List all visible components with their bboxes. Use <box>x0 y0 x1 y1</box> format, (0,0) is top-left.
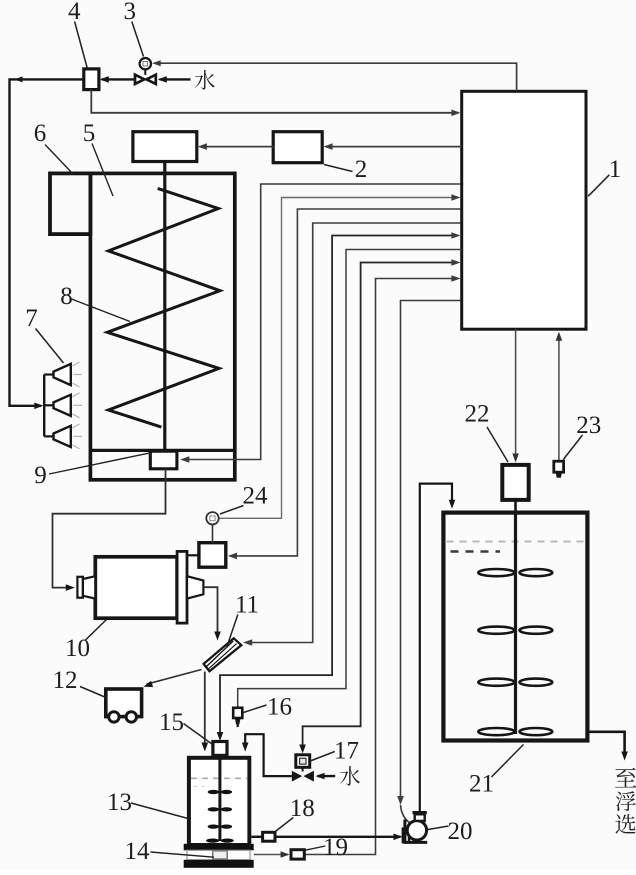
label 5 leader <box>92 144 113 197</box>
ball mill 10 end plate <box>177 551 187 623</box>
wire valve 17 to tank 13 <box>245 734 292 776</box>
wire controller to pump 20 <box>401 301 461 799</box>
ball mill 10 right trunnion <box>187 576 203 598</box>
label 22 leader <box>487 427 508 462</box>
valve 3 stem <box>144 69 146 75</box>
water text at valve 3 <box>195 70 215 89</box>
wire controller to chute 11 <box>245 223 461 643</box>
chute 11 <box>204 638 242 671</box>
svg-text:5: 5 <box>83 120 96 147</box>
water inlet arrow to valve 17 <box>318 775 336 777</box>
wire box 4 signal to controller 1 <box>91 90 458 113</box>
wire box 9 to ball mill feed <box>53 469 166 588</box>
wire chute to cart 12 <box>147 670 202 685</box>
svg-text:1: 1 <box>609 156 622 183</box>
svg-text:8: 8 <box>60 283 73 310</box>
box 22 (feeder head) <box>502 465 528 500</box>
wire sensor 23 to controller <box>558 339 560 461</box>
ball mill 10 left trunnion <box>77 577 83 598</box>
wire controller to feeder box of mill <box>230 209 461 556</box>
box 22 stem <box>514 500 517 513</box>
box 15 on tank 13 <box>213 742 227 756</box>
svg-text:19: 19 <box>323 834 348 861</box>
svg-text:17: 17 <box>334 738 359 765</box>
box 4 (flow meter) <box>84 69 99 90</box>
pipe pump 20 to tank 21 <box>420 484 452 813</box>
svg-text:3: 3 <box>123 0 136 25</box>
cart 12 body <box>106 689 142 717</box>
label 2 leader <box>324 165 353 172</box>
box 19 (sampler) <box>291 850 304 859</box>
wire sensor 24 to controller <box>219 198 459 519</box>
spray nozzles 7 with manifold <box>43 375 45 437</box>
label 17 leader <box>310 752 335 762</box>
tank 13 shell <box>189 758 249 845</box>
wire controller to box 22 <box>515 329 517 456</box>
svg-text:9: 9 <box>34 462 47 489</box>
label 4 leader <box>75 22 88 69</box>
svg-text:4: 4 <box>68 0 81 25</box>
tank 13 discharge band <box>187 850 250 860</box>
label 1 leader <box>588 175 609 196</box>
valve 3 actuator circle <box>140 58 151 69</box>
svg-text:15: 15 <box>159 709 184 736</box>
wire valve 3 to box 4 <box>102 78 135 80</box>
svg-text:7: 7 <box>25 305 38 332</box>
svg-text:24: 24 <box>243 483 269 510</box>
valve 17 actuator box <box>296 755 310 768</box>
box 6 on tank 5 <box>50 173 90 234</box>
label 3 leader <box>132 22 144 57</box>
water inlet arrow to valve 3 <box>160 78 191 80</box>
tank 13 interior white <box>191 760 247 843</box>
label 18 leader <box>275 818 293 832</box>
tank 13 stirrer paddles <box>208 790 220 794</box>
svg-text:23: 23 <box>576 412 601 439</box>
wire chute to tank 13 <box>204 672 206 745</box>
svg-text:14: 14 <box>125 838 151 865</box>
label 10 leader <box>86 620 107 641</box>
pump 20 casing <box>405 820 427 843</box>
tank 5 bottom separator <box>92 449 233 452</box>
tank 5 stirrer shaft <box>163 162 166 451</box>
pump 20 discharge neck <box>415 814 425 821</box>
wire mill discharge to chute <box>203 587 217 633</box>
wire controller to box 15 <box>220 236 459 734</box>
sensor 24 circle <box>206 512 218 524</box>
svg-text:12: 12 <box>53 667 78 694</box>
screw 8 (zigzag spiral) <box>107 188 220 427</box>
wire box 2 to motor box <box>200 146 274 148</box>
feeder box of mill <box>199 543 226 568</box>
label 24 leader <box>220 506 244 515</box>
sensor 24 stem <box>212 525 214 543</box>
wire box 19 to controller <box>305 279 459 855</box>
text to-flotation 浮 <box>616 791 636 811</box>
svg-text:2: 2 <box>355 156 368 183</box>
feeder box stub to mill plate <box>187 554 199 556</box>
label 21 leader <box>492 745 524 778</box>
sensor 23 probe <box>554 461 564 472</box>
svg-text:21: 21 <box>469 771 494 798</box>
svg-text:6: 6 <box>34 120 47 147</box>
label 15 leader <box>184 724 213 745</box>
tank 21 liquid level dashed <box>447 541 585 543</box>
text to-flotation 选 <box>615 814 635 834</box>
pipe tank 13 base to box 19 <box>254 854 288 856</box>
tank 5 shell <box>90 173 234 479</box>
water text at valve 17 <box>340 766 360 785</box>
label 12 leader <box>80 687 106 698</box>
wire controller to valve 17 <box>303 263 459 747</box>
label 8 leader <box>72 299 131 322</box>
valve 17 bowtie <box>292 771 302 782</box>
pump 20 inlet flange <box>403 829 409 843</box>
box 9 discharge feeder <box>150 451 177 469</box>
box 2 (inverter) <box>273 132 322 163</box>
valve 17 stem <box>302 767 304 771</box>
label 6 leader <box>45 145 74 175</box>
tank 21 stirrer paddles <box>478 569 514 576</box>
wire device 16 to controller <box>238 250 462 708</box>
controller box 1 <box>462 91 586 329</box>
label 19 leader <box>305 846 325 850</box>
tank 13 base bar <box>184 860 254 868</box>
svg-text:20: 20 <box>448 818 473 845</box>
ball mill 10 body <box>95 557 177 618</box>
device 16 (dosing nozzle) <box>233 708 242 718</box>
pipe tank 21 outlet to flotation <box>587 732 624 754</box>
label 23 leader <box>563 435 582 460</box>
label 11 leader <box>227 615 238 649</box>
label 14 leader <box>151 852 215 857</box>
wire box 4 to nozzles 7 (left down-pipe) <box>10 79 84 405</box>
label 9 leader <box>49 453 151 474</box>
tank 13 stirrer shaft <box>218 755 221 841</box>
label 7 leader <box>36 329 64 364</box>
svg-text:13: 13 <box>107 789 132 816</box>
svg-text:16: 16 <box>267 694 292 721</box>
motor box of tank 5 <box>133 132 197 162</box>
label 16 leader <box>244 705 267 713</box>
svg-text:11: 11 <box>235 592 259 619</box>
cart 12 wheels <box>109 712 119 722</box>
tank 13 bottom flange bar <box>184 844 254 851</box>
label 13 leader <box>131 803 188 819</box>
text to-flotation 至 <box>615 768 636 788</box>
tank 21 shell <box>443 513 587 741</box>
tank 13 liquid level dashed <box>191 777 247 779</box>
box 18 (flow meter) <box>263 832 275 841</box>
pipe tank 13 to pump 20 <box>251 836 262 838</box>
wire controller-1 top to valve-3 actuator <box>154 63 517 91</box>
valve 3 bowtie <box>135 75 144 84</box>
tank 21 stirrer shaft <box>514 513 517 734</box>
svg-text:22: 22 <box>465 401 490 428</box>
wire controller to box 9 <box>182 184 461 460</box>
wire controller 1 to box 2 <box>326 146 462 148</box>
label 20 leader <box>428 826 449 830</box>
